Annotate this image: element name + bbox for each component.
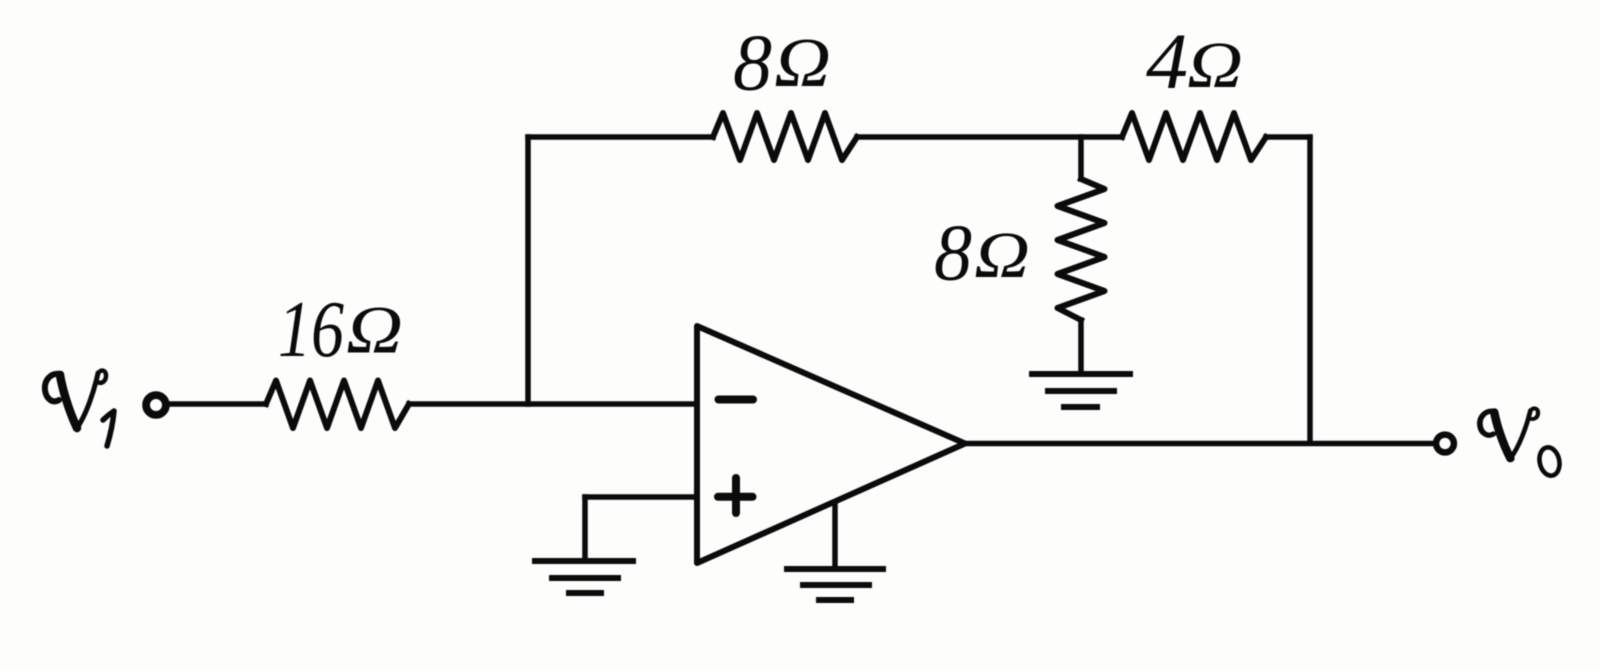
value label 4ohm [1146, 19, 1243, 106]
op-amp inverting input marker (minus) [719, 396, 754, 404]
svg-text:Ω: Ω [346, 292, 403, 368]
wire: resistor 16ohm to op-amp inverting input (node A) [409, 401, 694, 407]
wire: right feedback vertical down to output [1307, 137, 1313, 443]
svg-text:16: 16 [278, 284, 344, 374]
junction node B: stub down to shunt resistor [1078, 137, 1084, 179]
wire: op-amp power stub down [832, 503, 838, 566]
wire: non-inverting input to ground drop [585, 494, 694, 500]
ground (non-inverting input) [532, 561, 636, 593]
resistor 8ohm (shunt, vertical) [1058, 179, 1105, 320]
wire: top rail right segment [1266, 134, 1310, 140]
svg-text:Ω: Ω [774, 25, 831, 102]
wire: op-amp output to terminal [963, 441, 1435, 447]
label V0 (output node) [1480, 408, 1562, 477]
resistor 16ohm (input series) [266, 381, 409, 429]
value label 16ohm [278, 284, 403, 374]
svg-text:Ω: Ω [974, 219, 1030, 292]
wire: feedback left vertical (node A up to top rail) [525, 137, 531, 404]
label V1 (input node) [45, 371, 114, 446]
wire: top rail middle segment through node B [857, 134, 1122, 140]
wire: shunt resistor to ground [1078, 320, 1084, 371]
op-amp U1 (triangle) [697, 326, 965, 563]
resistor 8ohm (feedback, top left) [713, 113, 857, 160]
svg-text:Ω: Ω [1187, 29, 1243, 102]
wire: vertical drop to ground (non-inverting) [582, 497, 588, 558]
wire: V1 terminal to resistor 16ohm [170, 401, 266, 407]
wire: top rail left segment [528, 134, 713, 140]
svg-text:4: 4 [1146, 19, 1188, 106]
op-amp non-inverting input marker (plus) [718, 478, 753, 513]
ground (below shunt 8ohm) [1029, 374, 1133, 407]
resistor 4ohm (feedback, top right) [1122, 113, 1266, 160]
value label 8ohm (top feedback) [733, 18, 831, 108]
svg-text:8: 8 [733, 18, 772, 108]
value label 8ohm (shunt) [934, 208, 1030, 298]
output terminal V0 (open circle) [1436, 435, 1454, 453]
ground (op-amp power pin) [784, 569, 886, 600]
svg-text:8: 8 [934, 208, 972, 298]
input terminal V1 (open circle) [146, 395, 166, 415]
